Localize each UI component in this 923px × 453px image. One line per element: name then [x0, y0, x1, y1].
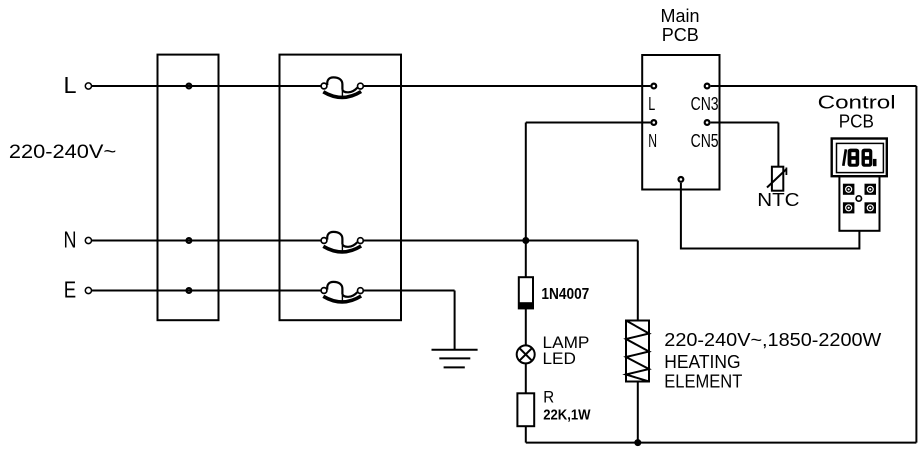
wire N branch vertical	[525, 123, 527, 241]
seven-segment digit 1	[843, 149, 846, 166]
svg-text:220-240V~: 220-240V~	[9, 142, 116, 163]
pin bottom of Main PCB	[679, 177, 684, 182]
wire right edge vertical	[915, 86, 917, 443]
wire N row right	[364, 240, 638, 242]
wire L row right	[364, 85, 651, 87]
wire E row left	[92, 290, 321, 292]
Main PCB box U1	[642, 55, 719, 190]
button bottom-left	[843, 202, 855, 213]
wire resistor to bottom	[525, 426, 527, 442]
resistor R	[517, 393, 534, 426]
wire Main PCB bottom to Control PCB	[681, 183, 860, 249]
heating element HE1	[626, 321, 649, 382]
diode D1 1N4007	[519, 277, 533, 308]
wire CN3 to right edge	[711, 85, 917, 87]
wire heater to bottom	[637, 382, 639, 443]
wire CN5 to NTC	[711, 122, 779, 124]
switch contact SW-E	[321, 282, 363, 302]
svg-text:Main: Main	[661, 5, 700, 26]
wire N row left	[92, 240, 321, 242]
svg-text:L: L	[64, 72, 77, 98]
svg-text:L: L	[648, 93, 655, 114]
terminal block contact N	[187, 238, 192, 243]
terminal E	[85, 287, 91, 293]
Control PCB display window	[837, 143, 884, 172]
seven-segment small block	[873, 159, 877, 166]
wire bottom return	[526, 442, 917, 444]
terminal block contact L	[187, 84, 192, 89]
svg-text:E: E	[64, 277, 76, 303]
Control PCB body	[839, 176, 879, 231]
wire E row right	[364, 290, 455, 292]
svg-text:ELEMENT: ELEMENT	[664, 371, 742, 392]
svg-text:NTC: NTC	[757, 189, 799, 210]
svg-text:Control: Control	[818, 92, 896, 113]
terminal block contact E	[187, 288, 192, 293]
svg-text:R: R	[543, 388, 554, 407]
junction N branch	[522, 237, 529, 244]
switch contact SW-N	[321, 232, 363, 252]
svg-text:PCB: PCB	[839, 111, 874, 132]
thermistor NTC	[767, 167, 786, 191]
wire N to Main PCB	[526, 122, 651, 124]
button bottom-right	[865, 202, 877, 213]
lamp LED1	[517, 345, 535, 363]
ground symbol	[432, 291, 478, 368]
Control PCB display bezel	[832, 139, 887, 177]
pin CN3 of Main PCB	[705, 84, 710, 89]
center pilot circle	[856, 196, 861, 201]
svg-text:1N4007: 1N4007	[541, 286, 589, 303]
wire N junction down to diode	[525, 241, 527, 277]
svg-text:PCB: PCB	[662, 24, 699, 45]
svg-text:N: N	[648, 130, 657, 151]
wire L row left	[92, 85, 321, 87]
svg-text:CN3: CN3	[691, 93, 719, 114]
pin L of Main PCB	[651, 84, 656, 89]
pin CN5 of Main PCB	[705, 120, 710, 125]
switch contact SW-L	[321, 77, 363, 97]
switch box (plug/connector)	[280, 55, 402, 321]
svg-text:N: N	[64, 227, 77, 253]
wire N row to heater	[637, 241, 639, 321]
svg-text:CN5: CN5	[691, 130, 719, 151]
terminal block TB1	[158, 55, 219, 321]
seven-segment digit 8 (second)	[862, 149, 873, 167]
junction heater bottom	[634, 439, 641, 446]
svg-text:22K,1W: 22K,1W	[543, 407, 591, 424]
button top-left	[843, 184, 855, 195]
button top-right	[865, 184, 877, 195]
terminal L	[85, 83, 91, 89]
pin N of Main PCB	[651, 120, 656, 125]
svg-text:LED: LED	[543, 349, 576, 368]
svg-text:HEATING: HEATING	[664, 351, 740, 372]
wire diode to LED	[525, 308, 527, 346]
terminal N	[85, 237, 91, 243]
svg-text:220-240V~,1850-2200W: 220-240V~,1850-2200W	[664, 329, 882, 350]
seven-segment digit 8 (first)	[848, 149, 860, 167]
wire LED to resistor	[525, 364, 527, 394]
